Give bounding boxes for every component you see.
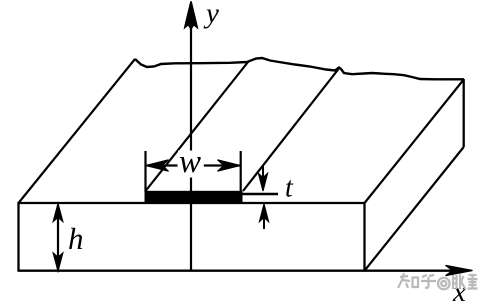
- substrate front face left edge: [17, 202, 19, 271]
- strip right edge running to back (diagonal): [243, 69, 339, 191]
- svg-text:w: w: [179, 144, 201, 180]
- svg-text:t: t: [285, 173, 294, 204]
- x-axis / substrate bottom edge: [18, 270, 453, 272]
- watermark handle glyph 1: [453, 274, 466, 289]
- t reference line (strip top extended): [242, 193, 278, 195]
- watermark @ sign: [438, 278, 450, 290]
- substrate front face top edge: [19, 202, 366, 204]
- w dimension left extension line: [144, 151, 146, 192]
- watermark glyph 知: [398, 273, 418, 288]
- watermark glyph 乎: [421, 275, 436, 288]
- substrate front face right edge: [363, 203, 365, 271]
- svg-text:h: h: [68, 221, 84, 256]
- substrate top face left edge (diagonal): [19, 59, 136, 203]
- t lower arrow (pointing up): [263, 212, 265, 229]
- y-axis arrowhead: [185, 2, 197, 28]
- w dimension line right segment with right arrowhead: [204, 164, 240, 166]
- x-axis arrowhead: [446, 265, 473, 275]
- strip left edge running to back (diagonal): [146, 62, 249, 191]
- watermark 知乎 @ handle: [398, 273, 478, 289]
- h dimension arrow shaft: [57, 206, 59, 269]
- h arrowhead top: [53, 204, 63, 222]
- substrate back torn edge (wavy): [135, 58, 464, 79]
- w dimension right extension line: [240, 151, 242, 192]
- t upper arrow (pointing down): [262, 166, 264, 184]
- microstrip conductor (black strip): [145, 191, 243, 203]
- w label: [178, 151, 204, 178]
- substrate right face bottom edge (diagonal): [365, 147, 464, 271]
- svg-text:y: y: [203, 0, 219, 30]
- h arrowhead bottom: [53, 253, 63, 271]
- substrate right face top edge (diagonal): [365, 80, 464, 204]
- substrate back right vertical edge: [463, 79, 465, 147]
- y-axis shaft: [190, 8, 192, 270]
- watermark handle glyph 2: [468, 275, 478, 289]
- w dimension line left segment with left arrowhead: [147, 164, 178, 166]
